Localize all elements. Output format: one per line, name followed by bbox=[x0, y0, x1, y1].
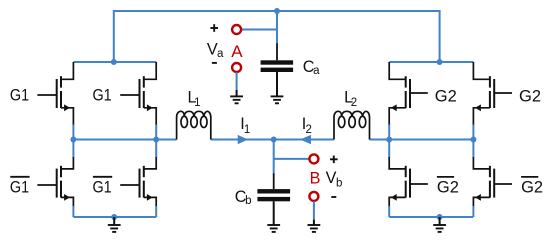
capacitor Ca bbox=[276, 44, 278, 61]
ground below B- bbox=[313, 201, 315, 219]
wire: mid rail right (L2 to bridge) bbox=[370, 139, 474, 141]
junction dot: node P3 (right bridge left leg) bbox=[386, 137, 392, 143]
svg-text:2: 2 bbox=[306, 124, 312, 136]
gate label G2-bar (Q7) bbox=[437, 176, 454, 178]
wire: right bottom rail bbox=[389, 216, 473, 218]
junction dot: node P4 (right bridge right leg) bbox=[470, 137, 476, 143]
svg-text:1: 1 bbox=[194, 97, 200, 109]
wire: top rail bbox=[114, 11, 440, 62]
wire: Ca top lead (blue) bbox=[276, 11, 278, 45]
wire: Cb top lead (blue) bbox=[273, 140, 275, 175]
minus sign (Va) bbox=[212, 62, 217, 64]
wire: left bridge upper connector bbox=[73, 61, 156, 63]
terminal B+ (positive) bbox=[309, 154, 318, 163]
svg-text:G2: G2 bbox=[519, 88, 541, 106]
transistor Q7 (lower right a) bbox=[410, 183, 428, 185]
svg-text:A: A bbox=[231, 42, 243, 61]
transistor Q4 (lower left b) bbox=[120, 184, 139, 186]
transistor Q8 (lower right b) bbox=[494, 183, 512, 185]
junction dot: right connector feed bbox=[437, 59, 443, 65]
svg-text:G1: G1 bbox=[93, 86, 112, 104]
inductor L1 bbox=[177, 111, 211, 139]
gate label G1-bar (Q3) bbox=[10, 176, 29, 178]
svg-text:G2: G2 bbox=[521, 179, 543, 197]
junction dot: node P2 (left bridge right leg) bbox=[153, 137, 159, 143]
ground below Ca bbox=[276, 72, 278, 96]
junction dot: node M (Cb column) bbox=[271, 137, 277, 143]
wire: A+ to Ca column bbox=[241, 29, 277, 31]
svg-text:a: a bbox=[313, 65, 320, 77]
current arrow I2 bbox=[300, 135, 311, 144]
gate label G1-bar (Q4) bbox=[93, 176, 112, 178]
transistor Q1 (upper left a) bbox=[37, 94, 56, 96]
terminal A- (negative) bbox=[232, 63, 241, 72]
svg-text:2: 2 bbox=[351, 97, 357, 109]
junction dot: left connector feed bbox=[111, 59, 117, 65]
wire: right bridge upper connector bbox=[389, 61, 473, 63]
ground right bridge bbox=[439, 217, 441, 225]
current arrow I1 bbox=[238, 135, 248, 144]
svg-text:G1: G1 bbox=[10, 179, 29, 197]
plus sign (Vb) bbox=[330, 158, 338, 160]
plus sign (Va) bbox=[210, 27, 218, 29]
transistor Q5 (upper right a) bbox=[410, 92, 428, 94]
wire: mid rail center (L1 to L2) bbox=[211, 139, 334, 141]
terminal B- (negative) bbox=[309, 192, 318, 201]
ground left bridge bbox=[113, 217, 115, 225]
minus sign (Vb) bbox=[331, 196, 336, 198]
transistor Q6 (upper right b) bbox=[494, 92, 512, 94]
transistor Q2 (upper left b) bbox=[120, 94, 139, 96]
gate label G2-bar (Q8) bbox=[521, 176, 538, 178]
wire: left bottom rail bbox=[73, 216, 156, 218]
svg-text:b: b bbox=[245, 195, 251, 207]
svg-text:b: b bbox=[336, 177, 342, 189]
capacitor Cb bbox=[273, 174, 275, 190]
ground below A- bbox=[236, 72, 238, 90]
ground below Cb bbox=[273, 201, 275, 225]
junction dot: top rail / Ca column bbox=[274, 8, 280, 14]
svg-text:a: a bbox=[217, 48, 224, 60]
junction dot: node P1 (left bridge left leg) bbox=[70, 137, 76, 143]
wire: Cb column to B+ bbox=[274, 158, 310, 160]
svg-text:G2: G2 bbox=[437, 179, 459, 197]
terminal A+ (positive) bbox=[232, 25, 241, 34]
junction dot: left bottom ground node bbox=[111, 214, 117, 220]
svg-text:1: 1 bbox=[244, 124, 250, 136]
transistor Q3 (lower left a) bbox=[37, 184, 56, 186]
svg-text:B: B bbox=[310, 170, 321, 188]
svg-text:V: V bbox=[326, 169, 337, 187]
inductor L2 bbox=[334, 111, 370, 139]
wire: mid rail left (bridge to L1) bbox=[73, 139, 176, 141]
svg-text:G1: G1 bbox=[93, 179, 112, 197]
svg-text:G1: G1 bbox=[10, 86, 29, 104]
junction dot: right bottom ground node bbox=[437, 214, 443, 220]
svg-text:G2: G2 bbox=[435, 88, 457, 106]
